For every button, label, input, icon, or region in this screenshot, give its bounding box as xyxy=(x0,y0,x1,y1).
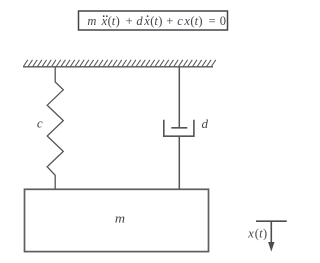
svg-text:): ) xyxy=(263,226,267,240)
svg-text:x: x xyxy=(247,226,254,240)
svg-text:+: + xyxy=(126,14,133,28)
damper piston plate xyxy=(171,127,187,129)
svg-text:m: m xyxy=(87,14,96,28)
svg-text:d: d xyxy=(136,14,143,28)
ceiling line xyxy=(23,66,213,68)
svg-text:c: c xyxy=(37,116,43,131)
svg-text:m: m xyxy=(115,211,125,226)
damper cup xyxy=(164,120,194,136)
svg-text:): ) xyxy=(198,14,202,28)
x(t) arrow xyxy=(270,221,272,244)
ceiling hatching xyxy=(24,60,216,67)
svg-text:=: = xyxy=(209,14,216,28)
svg-text:): ) xyxy=(158,14,162,28)
svg-text:x: x xyxy=(183,14,190,28)
spring (element c) xyxy=(47,67,63,190)
svg-text:): ) xyxy=(116,14,120,28)
damper rod upper xyxy=(178,67,180,128)
label x(t) xyxy=(247,226,267,240)
svg-text:c: c xyxy=(177,14,183,28)
svg-text:d: d xyxy=(202,116,209,131)
svg-text:+: + xyxy=(166,14,173,28)
svg-text:x: x xyxy=(143,14,150,28)
equation m ddot-x(t) + d dot-x(t) + c x(t) = 0 xyxy=(87,14,226,28)
damper rod lower xyxy=(178,136,180,189)
svg-text:0: 0 xyxy=(220,14,226,28)
equation box xyxy=(79,11,228,30)
x(t) datum line xyxy=(256,220,287,222)
mass box xyxy=(25,189,209,251)
